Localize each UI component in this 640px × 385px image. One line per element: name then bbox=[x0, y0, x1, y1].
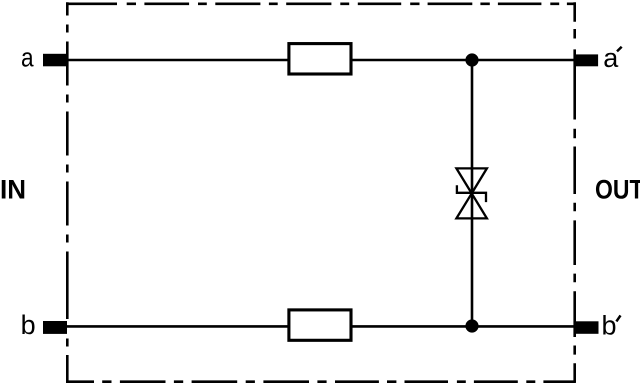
wire a to a' (top line) bbox=[60, 59, 576, 62]
svg-text:OUT: OUT bbox=[595, 175, 640, 205]
enclosure border right (dash-dot) bbox=[573, 2, 576, 383]
junction node top (a-line / shunt) bbox=[465, 53, 478, 66]
svg-text:b: b bbox=[21, 310, 36, 340]
TVS suppressor diode (bidirectional) bbox=[456, 168, 487, 218]
resistor (series decoupling element, top path) bbox=[289, 44, 351, 74]
label b' bbox=[602, 310, 621, 340]
wire shunt branch (vertical) bbox=[471, 60, 474, 326]
wire b to b' (bottom line) bbox=[60, 325, 576, 328]
svg-text:a: a bbox=[21, 43, 34, 73]
terminal a' (output pad) bbox=[574, 54, 598, 66]
svg-text:a: a bbox=[603, 43, 619, 73]
enclosure border left (dash-dot) bbox=[66, 2, 69, 383]
terminal b' (output pad) bbox=[574, 321, 599, 334]
svg-text:IN: IN bbox=[0, 175, 26, 205]
enclosure border bottom (dash-dot) bbox=[66, 380, 576, 383]
junction node bottom (b-line / shunt) bbox=[465, 319, 478, 332]
label a' bbox=[603, 43, 621, 73]
terminal b (input pad) bbox=[43, 321, 67, 334]
resistor (series decoupling element, bottom path) bbox=[289, 310, 351, 340]
terminal a (input pad) bbox=[43, 54, 67, 67]
enclosure border top (dash-dot) bbox=[66, 2, 576, 5]
svg-text:b: b bbox=[602, 310, 617, 340]
